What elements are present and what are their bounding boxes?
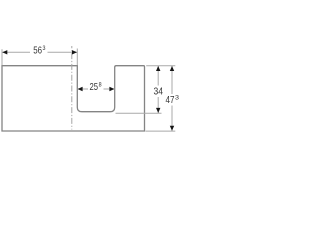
svg-text:8: 8 xyxy=(99,82,102,89)
svg-text:34: 34 xyxy=(154,87,164,98)
svg-text:25: 25 xyxy=(90,82,99,93)
svg-text:3: 3 xyxy=(175,94,180,101)
svg-text:3: 3 xyxy=(43,45,46,52)
svg-text:47: 47 xyxy=(166,95,175,106)
svg-text:56: 56 xyxy=(33,46,42,57)
